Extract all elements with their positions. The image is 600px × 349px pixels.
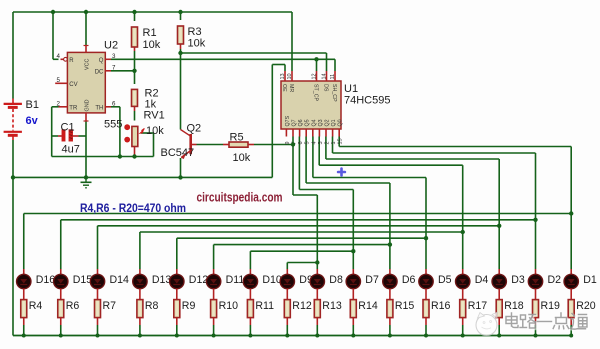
svg-text:D5: D5: [438, 274, 452, 286]
svg-text:Q0: Q0: [338, 119, 344, 126]
svg-text:9: 9: [285, 141, 291, 144]
svg-text:12: 12: [312, 73, 318, 79]
svg-text:D8: D8: [329, 274, 343, 286]
svg-text:U1: U1: [344, 83, 358, 95]
svg-text:4: 4: [311, 141, 317, 144]
svg-text:D16: D16: [36, 274, 56, 286]
svg-text:circuitspedia.com: circuitspedia.com: [197, 190, 283, 205]
svg-text:U2: U2: [104, 40, 118, 52]
svg-text:R11: R11: [255, 300, 274, 312]
svg-text:R15: R15: [395, 300, 415, 312]
svg-text:DC: DC: [95, 69, 104, 75]
svg-text:Q5: Q5: [305, 119, 311, 126]
svg-text:RV1: RV1: [144, 110, 165, 122]
svg-text:Q4: Q4: [311, 119, 317, 126]
svg-text:GND: GND: [84, 99, 90, 111]
svg-text:5: 5: [305, 141, 311, 144]
svg-text:DS: DS: [323, 84, 329, 92]
svg-text:R18: R18: [504, 300, 524, 312]
svg-text:R10: R10: [219, 300, 239, 312]
svg-text:10k: 10k: [188, 38, 206, 50]
svg-text:3: 3: [318, 141, 324, 144]
svg-text:SH_CP: SH_CP: [331, 84, 337, 102]
svg-text:4u7: 4u7: [62, 144, 80, 156]
svg-text:R1: R1: [143, 27, 157, 39]
svg-text:Q7: Q7: [292, 119, 298, 126]
svg-text:BC547: BC547: [161, 147, 195, 159]
svg-text:C1: C1: [61, 122, 75, 134]
svg-text:2: 2: [57, 100, 61, 107]
svg-text:VCC: VCC: [84, 59, 90, 70]
svg-text:R12: R12: [292, 300, 312, 312]
svg-text:R5: R5: [230, 132, 244, 144]
svg-text:D6: D6: [402, 274, 416, 286]
svg-text:Q2: Q2: [187, 123, 202, 135]
svg-text:D11: D11: [226, 274, 245, 286]
svg-text:Q6: Q6: [298, 119, 304, 126]
svg-text:11: 11: [330, 74, 336, 80]
svg-text:R8: R8: [145, 300, 159, 312]
svg-text:5: 5: [57, 77, 61, 84]
svg-text:7: 7: [112, 64, 116, 71]
svg-text:15: 15: [338, 138, 344, 144]
svg-text:74HC595: 74HC595: [344, 95, 390, 107]
svg-text:R: R: [69, 58, 74, 64]
svg-text:OE: OE: [281, 84, 287, 92]
svg-text:R4,R6 - R20=470 ohm: R4,R6 - R20=470 ohm: [80, 201, 186, 215]
svg-text:R9: R9: [182, 300, 196, 312]
svg-text:4: 4: [57, 53, 61, 60]
svg-text:D12: D12: [189, 274, 209, 286]
svg-text:B1: B1: [26, 99, 39, 111]
svg-text:6: 6: [112, 100, 116, 107]
svg-text:ST_CP: ST_CP: [313, 84, 319, 102]
svg-text:R17: R17: [468, 300, 488, 312]
svg-text:Q7S: Q7S: [285, 115, 291, 126]
svg-text:Q1: Q1: [331, 119, 337, 126]
svg-text:Q3: Q3: [318, 119, 324, 126]
svg-text:R14: R14: [358, 300, 378, 312]
svg-text:555: 555: [104, 119, 122, 131]
svg-text:D3: D3: [511, 274, 525, 286]
svg-text:Q: Q: [99, 58, 104, 64]
svg-text:Q2: Q2: [325, 119, 331, 126]
svg-text:R6: R6: [66, 300, 80, 312]
svg-text:D15: D15: [73, 274, 93, 286]
svg-text:R19: R19: [541, 300, 561, 312]
svg-text:TR: TR: [69, 105, 78, 111]
svg-text:R4: R4: [29, 300, 43, 312]
svg-text:6v: 6v: [26, 115, 39, 127]
svg-text:6: 6: [298, 141, 304, 144]
svg-text:14: 14: [322, 73, 328, 79]
svg-text:MR: MR: [288, 84, 294, 92]
svg-text:10k: 10k: [233, 152, 251, 164]
svg-text:D10: D10: [262, 274, 282, 286]
svg-text:2: 2: [325, 141, 331, 144]
svg-text:R3: R3: [188, 26, 202, 38]
svg-text:CV: CV: [69, 82, 77, 88]
svg-text:D13: D13: [152, 274, 172, 286]
svg-text:R7: R7: [103, 300, 117, 312]
svg-text:D14: D14: [110, 274, 130, 286]
svg-text:R16: R16: [431, 300, 451, 312]
svg-text:13: 13: [280, 73, 286, 79]
svg-text:10k: 10k: [143, 39, 161, 51]
svg-text:D4: D4: [475, 274, 489, 286]
svg-text:D7: D7: [365, 274, 379, 286]
svg-text:R20: R20: [576, 300, 596, 312]
svg-text:TH: TH: [95, 105, 103, 111]
svg-text:1: 1: [331, 141, 337, 144]
svg-text:10k: 10k: [146, 125, 164, 137]
svg-text:R13: R13: [322, 300, 342, 312]
svg-text:D2: D2: [548, 274, 562, 286]
svg-text:D1: D1: [583, 274, 597, 286]
svg-text:3: 3: [112, 53, 116, 60]
svg-text:10: 10: [287, 73, 293, 79]
